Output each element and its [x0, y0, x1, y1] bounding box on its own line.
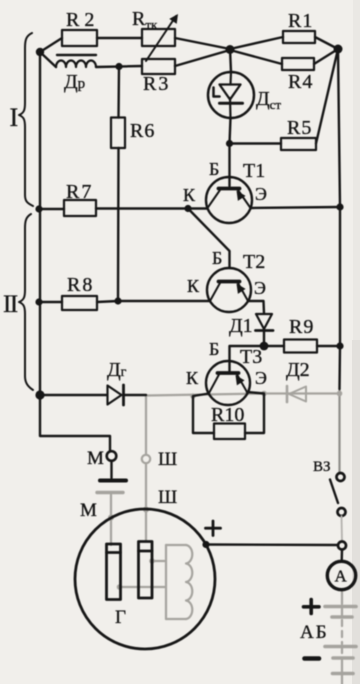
- node R9-bus: [336, 342, 343, 349]
- svg-text:Э: Э: [255, 184, 267, 204]
- svg-text:М: М: [80, 500, 97, 521]
- wire R7 row: [40, 208, 64, 210]
- battery plate long 1: [325, 605, 356, 609]
- battery plate short 2: [333, 656, 353, 660]
- wire T1 emitter to right bus: [251, 207, 341, 208]
- inductor field winding of generator: [186, 545, 192, 619]
- ammeter A: [327, 561, 355, 589]
- wire left bus vertical: [39, 52, 41, 395]
- resistor R8: [62, 296, 97, 310]
- node bus-Dg: [35, 390, 44, 399]
- svg-text:R8: R8: [67, 274, 94, 296]
- wire R3 to node A: [175, 50, 230, 66]
- svg-text:К: К: [183, 185, 196, 205]
- diode D1: [256, 314, 272, 329]
- wire gray M lead bar to generator brush: [110, 495, 112, 546]
- svg-text:Ш: Ш: [158, 449, 177, 470]
- wire Dst to node C: [230, 118, 231, 144]
- svg-text:R9: R9: [289, 316, 314, 338]
- svg-text:К: К: [186, 368, 199, 388]
- bracket II: [19, 214, 33, 390]
- svg-text:Э: Э: [254, 278, 266, 298]
- wire node D to base T3: [230, 346, 265, 372]
- scan edge shading right: [352, 340, 360, 684]
- resistor R10: [214, 424, 245, 440]
- svg-text:АБ: АБ: [300, 622, 329, 643]
- resistor R6: [111, 118, 125, 149]
- svg-text:Э: Э: [255, 368, 267, 388]
- wire gray inside generator: brush taps and coil leads: [118, 586, 166, 588]
- svg-text:R2: R2: [66, 9, 99, 31]
- svg-text:Б: Б: [209, 339, 219, 359]
- node gray at left brush tap: [117, 584, 123, 590]
- svg-text:R10: R10: [211, 404, 244, 426]
- svg-text:Д2: Д2: [286, 359, 310, 381]
- svg-text:I: I: [10, 103, 19, 132]
- wire R7 to node K1: [96, 207, 188, 209]
- resistor R2: [62, 30, 97, 46]
- generator G circle: [75, 509, 215, 649]
- svg-text:Б: Б: [209, 159, 219, 179]
- svg-text:Д1: Д1: [229, 315, 253, 337]
- wire gray Sh vertical to terminal: [145, 396, 147, 455]
- wire node A to Dst: [230, 49, 231, 72]
- svg-text:Б: Б: [212, 248, 222, 268]
- node gray at T3 emitter junction: [261, 391, 267, 397]
- transistor T2: [207, 268, 251, 312]
- resistor R1: [283, 31, 315, 43]
- svg-text:ВЗ: ВЗ: [313, 459, 331, 475]
- svg-text:II: II: [3, 291, 18, 318]
- resistor R9: [284, 340, 317, 353]
- battery plate long 2: [325, 645, 356, 649]
- node gray Sh on generator circle: [143, 507, 149, 513]
- svg-text:R4: R4: [288, 71, 313, 93]
- brush right of generator: [139, 542, 153, 599]
- wire R5 to node B: [316, 49, 338, 144]
- node top-left junction: [36, 48, 44, 56]
- wire R4 to node B: [314, 49, 338, 64]
- wire T2 emitter to D1: [248, 301, 264, 314]
- wire node A to R4: [230, 50, 282, 64]
- wire Dg row: [40, 394, 107, 396]
- node K1: [184, 205, 191, 212]
- node C (base of T1 / R5): [226, 140, 233, 147]
- battery dashed link: [341, 620, 343, 644]
- wire right bus upper: [338, 49, 340, 389]
- diode D2 (gray): [286, 386, 289, 402]
- wire Dr to R3: [96, 66, 142, 67]
- svg-text:Г: Г: [115, 607, 126, 628]
- wire to Dr: [40, 52, 56, 67]
- wire terminal to ammeter: [341, 550, 344, 562]
- battery plate short 3: [333, 672, 354, 676]
- svg-text:А: А: [335, 567, 348, 586]
- node plus terminal of generator: [202, 541, 209, 548]
- svg-text:R5: R5: [287, 117, 312, 139]
- GRAY-LAYER: [97, 386, 356, 684]
- svg-text:R1: R1: [288, 10, 313, 32]
- wire gray right bus segment above switch VZ: [338, 388, 340, 473]
- node emitter T1 on bus: [336, 203, 343, 210]
- wire Rtk to node A: [175, 38, 230, 49]
- battery AB wiring (gray): [341, 590, 343, 605]
- minus sign at battery: [305, 656, 320, 661]
- ground bar: [100, 479, 126, 483]
- resistor R3: [142, 59, 175, 74]
- zener diode Dst: [208, 72, 254, 118]
- wire T1 collector to node K1: [188, 207, 208, 209]
- resistor Rtk (thermal): [142, 29, 175, 46]
- wire VZ to terminal: [341, 516, 344, 542]
- svg-text:R7: R7: [66, 181, 93, 203]
- switch VZ lever: [330, 480, 338, 504]
- switch VZ top contact: [337, 473, 345, 481]
- wire node A to R1: [230, 37, 283, 49]
- resistor R4: [282, 58, 314, 70]
- plus sign at generator: [206, 521, 221, 536]
- node B (right top): [334, 45, 343, 54]
- bracket I: [19, 33, 33, 206]
- svg-text:R6: R6: [130, 120, 155, 142]
- wire R2 to Rtk: [97, 37, 142, 39]
- wire gray Sh terminal to generator brush: [145, 464, 147, 542]
- node bus-R7: [35, 205, 42, 212]
- wire R10 to T3 emitter: [245, 392, 264, 433]
- wire node D to R9: [264, 345, 284, 347]
- svg-text:Т2: Т2: [243, 251, 265, 273]
- node bus-R8: [35, 298, 42, 305]
- svg-text:М: М: [87, 448, 104, 469]
- wire node C to R5: [230, 142, 282, 144]
- wire R8 to T2 collector: [97, 301, 210, 302]
- wire R6 branch: [117, 67, 120, 118]
- node gray M on generator circle: [108, 515, 114, 521]
- node A (left crossing): [226, 45, 235, 54]
- inductor Dr: [56, 61, 96, 68]
- node R6 bottom: [114, 297, 121, 304]
- node D (under D1): [260, 342, 269, 351]
- wire plus terminal to VZ terminal: [206, 543, 338, 546]
- wire left bus to M terminal: [40, 395, 110, 451]
- terminal Sh circle: [142, 455, 150, 463]
- wire R8 row: [40, 301, 62, 303]
- node gray at right brush tap: [149, 558, 155, 564]
- wire gray field line from Dg junction to right bus (node under T3): [146, 394, 338, 396]
- wire to R2: [40, 38, 62, 52]
- transistor T1: [206, 177, 252, 223]
- svg-text:Т3: Т3: [240, 346, 262, 368]
- wire R1 to node B: [315, 37, 338, 49]
- diode Dg: [108, 386, 122, 405]
- svg-text:R3: R3: [143, 73, 170, 95]
- wire M to ground: [110, 461, 112, 478]
- node gray at T3 collector junction: [190, 393, 196, 399]
- node R6 tap: [115, 63, 122, 70]
- wire R9 to right bus: [317, 345, 340, 347]
- wire base T1: [228, 144, 230, 187]
- gray chassis bar under M ground: [97, 491, 123, 494]
- resistor R5: [281, 138, 316, 150]
- terminal junction circle: [338, 542, 346, 550]
- wire T3 collector to R10: [193, 394, 214, 434]
- wire node K1 to base T2: [188, 209, 230, 269]
- brush left of generator: [107, 544, 121, 600]
- resistor R7: [64, 200, 96, 216]
- terminal M circle: [107, 451, 117, 461]
- svg-text:К: К: [187, 276, 200, 296]
- battery plate short 1: [332, 615, 352, 619]
- switch VZ bottom contact: [338, 508, 346, 516]
- plus sign at battery: [304, 600, 320, 614]
- inductor Dr core bar: [57, 54, 96, 56]
- svg-text:Т1: Т1: [243, 160, 265, 182]
- transistor T3: [206, 361, 250, 405]
- svg-text:Ш: Ш: [158, 487, 177, 508]
